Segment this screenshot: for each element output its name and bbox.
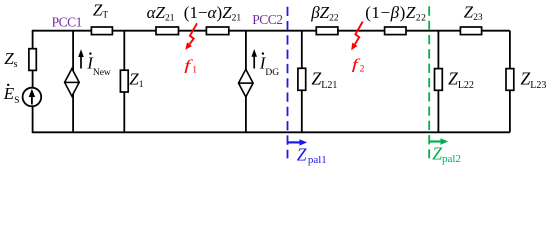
svg-text:αZ21: αZ21 <box>147 3 175 24</box>
svg-text:ZL21: ZL21 <box>312 69 338 92</box>
svg-text:Zpal2: Zpal2 <box>432 144 461 166</box>
svg-text:ZT: ZT <box>93 1 108 21</box>
svg-text:βZ22: βZ22 <box>310 3 339 24</box>
svg-text:2: 2 <box>360 65 365 75</box>
svg-text:1: 1 <box>192 66 197 76</box>
svg-text:ZL22: ZL22 <box>448 69 474 92</box>
svg-text:PCC1: PCC1 <box>52 15 82 30</box>
svg-text:ZL23: ZL23 <box>521 69 547 92</box>
svg-text:PCC2: PCC2 <box>252 12 282 27</box>
svg-text:Z23: Z23 <box>464 2 483 23</box>
svg-text:(1−β)Z22: (1−β)Z22 <box>365 3 426 24</box>
svg-text:Zs: Zs <box>4 49 17 70</box>
svg-text:Zpal1: Zpal1 <box>297 144 327 166</box>
svg-text:Z1: Z1 <box>129 69 143 90</box>
svg-text:IDG: IDG <box>259 54 280 79</box>
svg-text:(1−α)Z21: (1−α)Z21 <box>184 3 242 24</box>
svg-text:ES: ES <box>3 84 20 106</box>
svg-text:INew: INew <box>86 54 111 79</box>
